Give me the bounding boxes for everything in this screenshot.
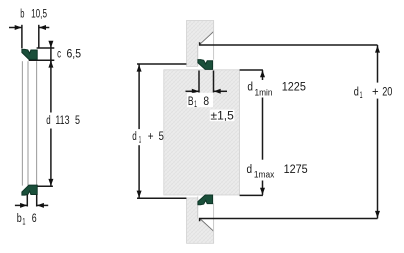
b extension line right — [38, 25, 40, 48]
svg-text:1min: 1min — [255, 87, 273, 97]
svg-text:1225: 1225 — [282, 82, 306, 94]
d bottom arrow — [48, 179, 53, 186]
svg-text:6: 6 — [32, 213, 37, 225]
label d1min 1225 — [247, 82, 306, 98]
label c 6,5 — [57, 48, 81, 60]
label d 1135 — [46, 115, 80, 127]
b arrow left — [9, 25, 22, 30]
label d1max 1275 — [247, 164, 308, 180]
extension line d1min — [240, 69, 263, 71]
arrow up d1min — [260, 70, 265, 77]
svg-text:c: c — [57, 48, 61, 60]
svg-text:20: 20 — [382, 87, 392, 99]
svg-text:b: b — [17, 213, 22, 225]
svg-text:B: B — [188, 96, 194, 108]
chamfer line bottom bar — [200, 219, 214, 232]
d dimension line (vertical) — [50, 48, 52, 186]
svg-text:1: 1 — [360, 90, 363, 100]
shaft line 2 (gray) — [27, 61, 29, 185]
svg-text:d: d — [132, 131, 137, 143]
dimension line d1+5 — [138, 64, 140, 198]
svg-text:d: d — [247, 164, 253, 176]
hub block (housing) — [164, 70, 240, 195]
label b1 6 — [17, 213, 37, 227]
b extension line left — [21, 25, 23, 49]
svg-text:113: 113 — [55, 115, 69, 127]
notch wall line bottom bar — [197, 197, 199, 219]
B1 extension line right (right figure) — [213, 71, 215, 93]
B1 extension line right (left figure) — [36, 195, 38, 207]
notch wall line top bar — [197, 44, 199, 66]
notch cut in bottom bar (white) — [198, 196, 214, 232]
label b 10,5 — [20, 9, 47, 21]
B1 arrow right (left figure) — [37, 203, 48, 208]
dimension line d1+20 — [377, 45, 379, 219]
svg-text:1: 1 — [194, 99, 197, 109]
V-ring seal bottom (left figure) — [22, 185, 37, 195]
arrow down d1max — [260, 188, 265, 195]
label ±1,5 (white box) — [210, 110, 235, 122]
B1 extension line left (left figure) — [26, 195, 28, 207]
shaft line 1 (gray) — [21, 61, 23, 185]
svg-text:d: d — [247, 82, 253, 94]
svg-text:8: 8 — [203, 96, 209, 108]
chamfer line top bar — [200, 32, 214, 45]
extension line d1+20 bottom — [200, 219, 378, 222]
svg-text:1: 1 — [22, 217, 25, 227]
svg-text:d: d — [46, 115, 50, 127]
B1 extension line left (right figure) — [198, 71, 200, 93]
bar right edge faint line (top) — [212, 32, 214, 60]
extension line d1+5 bottom — [137, 197, 186, 199]
d bottom extension line — [37, 185, 53, 187]
label d1 + 20 — [354, 87, 393, 100]
c arrow down (above top line) — [48, 41, 53, 48]
V-ring seal bottom (right figure) — [198, 195, 213, 205]
svg-text:1275: 1275 — [284, 164, 308, 176]
arrow down d1+20 — [375, 211, 380, 218]
counterface bar top (shaft collar) — [187, 21, 214, 67]
svg-text:b: b — [20, 9, 24, 21]
svg-text:±1,5: ±1,5 — [211, 110, 234, 122]
arrow up d1+5 — [137, 65, 142, 72]
svg-text:1max: 1max — [254, 170, 275, 180]
extension line d1max — [240, 194, 263, 196]
counterface bar bottom (shaft collar) — [187, 198, 214, 243]
V-ring seal top (left figure) — [22, 49, 37, 59]
arrow up d1+20 — [375, 46, 380, 53]
shaft line 3 (gray) — [36, 61, 38, 185]
bar right edge faint line (bottom) — [212, 203, 214, 231]
V-ring seal top (right figure) — [198, 60, 213, 70]
B1 arrow left (right figure) — [186, 89, 199, 94]
extension line d1+5 top — [137, 63, 186, 65]
arrow down d1+5 — [137, 191, 142, 198]
c top extension line — [37, 47, 55, 49]
B1 arrow left (left figure) — [15, 203, 27, 208]
svg-text:d: d — [354, 87, 359, 99]
extension line d1+20 top — [200, 42, 378, 45]
svg-text:5: 5 — [159, 131, 164, 143]
c arrow up (below bottom line) — [48, 61, 53, 68]
dimension line d1min/d1max (shared vertical) — [262, 70, 264, 195]
svg-text:5: 5 — [75, 115, 80, 127]
notch cut in top bar (white) — [198, 31, 214, 67]
svg-text:+: + — [148, 131, 154, 143]
svg-text:+: + — [372, 87, 379, 99]
b arrow right — [39, 25, 49, 30]
B1 arrow right (right figure) — [214, 89, 227, 94]
c bottom extension line — [29, 59, 55, 61]
label d1 + 5 — [132, 131, 164, 144]
svg-text:10,5: 10,5 — [31, 9, 47, 21]
svg-text:1: 1 — [139, 134, 142, 144]
svg-text:6,5: 6,5 — [67, 48, 82, 60]
label B1 8 (white box) — [187, 93, 213, 107]
